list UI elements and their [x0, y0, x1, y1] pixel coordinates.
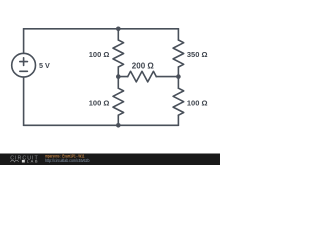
- junction node D middle-right: [176, 74, 181, 79]
- CircuitLab logo block: [22, 160, 25, 163]
- wire: source top lead: [23, 29, 25, 54]
- resistor R3 200 Ohm middle horizontal: [118, 71, 178, 82]
- voltage source V1 plus sign: [20, 58, 28, 66]
- junction node B middle-left: [116, 74, 121, 79]
- voltage source V1 body: [12, 53, 36, 77]
- resistor R2 350 Ohm top-right branch: [173, 29, 184, 77]
- voltage source V1 minus sign: [20, 70, 28, 72]
- svg-text:350 Ω: 350 Ω: [187, 50, 208, 59]
- svg-text:http://circuitlab.com/c5tv52b: http://circuitlab.com/c5tv52b: [45, 158, 90, 163]
- resistor R4 100 Ohm bottom-left branch: [113, 77, 124, 126]
- wire: top rail node A: [24, 28, 179, 30]
- wire: bottom rail node C: [24, 124, 179, 126]
- svg-text:200 Ω: 200 Ω: [132, 61, 155, 70]
- wire: source bottom lead: [23, 77, 25, 125]
- junction node A top: [116, 27, 121, 32]
- svg-text:5 V: 5 V: [39, 61, 50, 70]
- resistor R5 100 Ohm bottom-right branch: [173, 77, 184, 126]
- svg-text:100 Ω: 100 Ω: [187, 99, 208, 108]
- CircuitLab watermark bar: [0, 154, 220, 166]
- junction node C bottom: [116, 123, 121, 128]
- svg-text:100 Ω: 100 Ω: [89, 50, 110, 59]
- CircuitLab logo waveform: [10, 160, 18, 162]
- resistor R1 100 Ohm top-left branch: [113, 29, 124, 77]
- svg-text:100 Ω: 100 Ω: [89, 99, 110, 108]
- svg-text:LAB: LAB: [27, 159, 38, 164]
